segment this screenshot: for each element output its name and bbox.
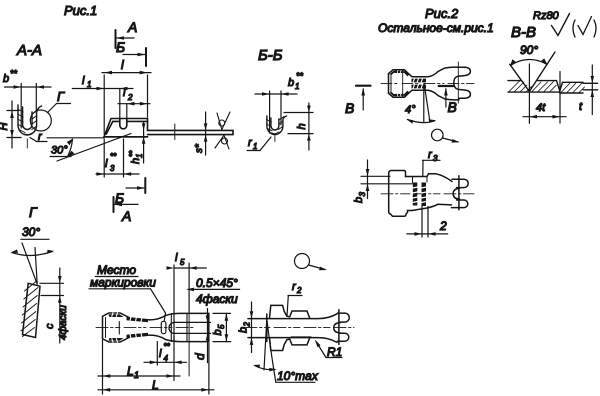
svg-text:c: c: [44, 323, 56, 329]
svg-text:В: В: [345, 100, 354, 116]
bottom right side view: center line: [245, 327, 354, 329]
label А-А: [16, 42, 42, 59]
svg-text:маркировки: маркировки: [90, 276, 156, 290]
svg-text:Rz80: Rz80: [533, 10, 560, 22]
svg-text:А: А: [121, 208, 131, 224]
fig2 side view: groove width 2 dimension: [407, 206, 448, 237]
section В-В: t dimension: [579, 65, 594, 115]
detail Г callout circle on A-A: [30, 89, 70, 131]
fig2 top view: cutting plane mark B right: [439, 86, 457, 115]
svg-text:В-В: В-В: [511, 24, 536, 41]
section В-В: plate with V grooves and hatching: [508, 52, 598, 93]
svg-text:3: 3: [433, 154, 438, 163]
fig2 side view: r3 label with leader: [423, 149, 441, 176]
main view: l2 dimension: [118, 87, 150, 118]
svg-text:**: **: [128, 150, 137, 157]
plan view: serration bands: [109, 314, 149, 340]
section A-A: U crimp profile: [18, 105, 42, 148]
svg-text:**: **: [296, 71, 304, 81]
svg-text:3: 3: [358, 192, 367, 197]
plan view: d dimension: [193, 309, 209, 363]
svg-text:5: 5: [180, 258, 185, 267]
plan view: L dimension: [98, 343, 214, 394]
main view: part profile: [104, 119, 233, 140]
plan view: L1 dimension: [98, 340, 180, 394]
main view: cutting plane mark Б top: [116, 39, 146, 66]
main view: roughness mark below tongue: [215, 135, 229, 149]
bottom right side view: R1 label with leader: [315, 340, 343, 359]
svg-text:4°: 4°: [405, 104, 416, 116]
svg-text:2: 2: [296, 286, 302, 295]
svg-text:Рис.2: Рис.2: [425, 6, 459, 21]
svg-text:10°max: 10°max: [277, 369, 319, 383]
svg-text:4фаски: 4фаски: [196, 292, 238, 306]
plan view: Место маркировки label: [89, 263, 166, 321]
section A-A: r label with leader: [30, 131, 47, 143]
fig2 side view: part outline: [389, 171, 469, 217]
plan view: l5 dimension: [167, 252, 207, 376]
bottom right side view: 10 deg max: [253, 319, 319, 383]
svg-text:1: 1: [295, 82, 299, 91]
view Г: c dimension with 4 фаски: [40, 268, 69, 343]
svg-text:d: d: [193, 353, 207, 360]
section A-A: H dimension: [0, 101, 21, 148]
section В-В: 4t dimension: [523, 64, 566, 123]
main view: l dimension: [102, 58, 151, 134]
fig2 top view: center lines: [381, 62, 474, 103]
svg-text:30°: 30°: [22, 225, 40, 239]
fig2 top view: cutting plane mark B left: [345, 86, 371, 116]
svg-text:А: А: [127, 19, 137, 35]
main view: s* thickness dimension: [194, 112, 207, 155]
roughness symbol after Rz80: [552, 14, 570, 36]
fig2 side view: center line: [381, 193, 474, 195]
main view: l1 dimension: [72, 75, 133, 118]
svg-text:b: b: [238, 327, 250, 333]
plan view: part outline: [103, 313, 211, 342]
label В-В: [511, 24, 536, 41]
main view: cutting plane mark Б bottom: [115, 178, 145, 206]
svg-text:b: b: [353, 197, 365, 203]
svg-text:30°: 30°: [51, 145, 68, 157]
svg-text:b: b: [212, 329, 224, 335]
svg-text:3: 3: [110, 164, 115, 173]
bottom right rotation symbol: [295, 254, 328, 271]
section A-A: b** dimension: [3, 69, 51, 129]
section Б-Б: r1 label with leader: [247, 137, 271, 151]
svg-text:Б: Б: [116, 39, 125, 55]
section Б-Б: h dimension: [284, 103, 313, 150]
svg-text:Г: Г: [57, 89, 65, 104]
svg-text:b: b: [288, 77, 294, 89]
svg-text:А-А: А-А: [16, 42, 42, 59]
main view: h1 dimension: [128, 122, 145, 164]
svg-text:4t: 4t: [536, 102, 546, 114]
fig2 top view: serration bands on barrel: [389, 71, 409, 97]
bottom right side view: part outline: [248, 305, 349, 350]
svg-text:H: H: [0, 123, 10, 131]
section Б-Б: U profile: [266, 116, 286, 142]
svg-text:l: l: [121, 58, 124, 72]
svg-text:В: В: [448, 99, 457, 115]
svg-text:Рис.1: Рис.1: [64, 3, 97, 18]
svg-text:2: 2: [439, 219, 447, 233]
svg-text:1: 1: [134, 370, 139, 380]
svg-text:**: **: [164, 342, 171, 351]
svg-text:2: 2: [127, 93, 133, 102]
svg-text:1: 1: [87, 80, 91, 89]
plan view: 0.5x45 chamfer callout: [187, 276, 240, 306]
main view: cutting plane mark A top: [116, 19, 138, 48]
fig2 top view: part outline: [389, 67, 471, 100]
svg-text:4фаски: 4фаски: [57, 305, 69, 340]
plan view: b5 dimension: [212, 313, 231, 341]
section Б-Б: b1** dimension: [255, 71, 304, 133]
svg-text:Остальное-см.рис.1: Остальное-см.рис.1: [378, 21, 494, 35]
main view: 30 deg chamfer construction: [47, 134, 131, 162]
view Г label: [29, 204, 38, 220]
view Г: 30 deg angle and chamfer strip: [11, 225, 55, 284]
view Г: hatched chamfer cross-section: [21, 282, 40, 338]
bottom right side view: b2 dimension: [238, 302, 254, 353]
main view: roughness mark above tongue: [217, 112, 230, 130]
roughness symbol in parentheses: [573, 17, 596, 38]
svg-text:s*: s*: [194, 143, 205, 153]
svg-text:**: **: [10, 69, 18, 79]
main view: cutting plane mark A bottom: [114, 197, 139, 224]
fig2 side view: groove serration bands: [413, 183, 426, 207]
svg-text:b: b: [3, 73, 9, 85]
section В-В: 90 deg angle: [510, 43, 548, 67]
fig2 top view: wire serrations in neck: [412, 79, 427, 89]
label Rz80: [533, 10, 560, 22]
label Рис.2: [425, 6, 459, 21]
svg-text:90°: 90°: [520, 43, 538, 57]
fig2 rotation symbol: [432, 129, 460, 142]
svg-text:1: 1: [253, 142, 257, 151]
main view: l3 dimension: [96, 139, 139, 177]
plan view: center line: [96, 327, 193, 329]
svg-text:4: 4: [164, 354, 169, 363]
svg-text:0.5×45°: 0.5×45°: [196, 276, 238, 290]
svg-text:2: 2: [243, 322, 252, 328]
svg-text:**: **: [110, 152, 117, 161]
label Б-Б: [258, 47, 283, 64]
fig2 side view: b3 dimension: [353, 160, 413, 203]
plan view: l4 dimension: [144, 336, 187, 381]
svg-text:5: 5: [217, 324, 226, 329]
svg-text:Б-Б: Б-Б: [258, 47, 283, 64]
fig2 top view: 4 deg angle: [405, 84, 436, 124]
label Рис.1: [64, 3, 97, 18]
bottom right side view: r2 label with leader: [287, 281, 302, 316]
label Остальное - см.рис.1: [378, 21, 494, 35]
svg-text:h: h: [296, 123, 308, 129]
